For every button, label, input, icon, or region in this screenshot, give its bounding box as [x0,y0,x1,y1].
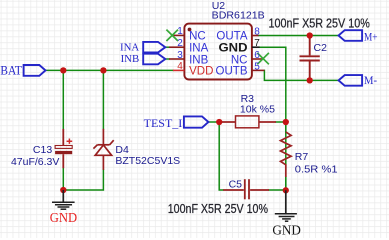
svg-text:7: 7 [254,38,260,49]
svg-text:10k %5: 10k %5 [240,103,275,115]
svg-text:NC: NC [231,54,248,66]
svg-text:BDR6121B: BDR6121B [212,9,265,21]
svg-text:0.5R %1: 0.5R %1 [295,164,338,176]
svg-text:INA: INA [189,43,209,55]
svg-text:1: 1 [177,26,183,37]
svg-text:100nF X5R 25V 10%: 100nF X5R 25V 10% [168,201,269,216]
svg-text:GND: GND [219,43,248,55]
svg-text:GND: GND [50,210,77,225]
svg-text:BZT52C5V1S: BZT52C5V1S [115,155,180,167]
svg-text:M-: M- [364,73,377,87]
svg-text:C5: C5 [229,178,243,190]
svg-text:2: 2 [177,38,183,49]
svg-text:OUTB: OUTB [216,66,248,78]
svg-text:M+: M+ [364,29,378,43]
svg-text:NC: NC [189,31,206,43]
svg-text:4: 4 [177,61,183,72]
svg-text:BAT: BAT [0,63,22,77]
svg-text:OUTA: OUTA [216,31,247,43]
svg-text:5: 5 [254,61,260,72]
svg-text:GND: GND [272,224,301,238]
svg-text:47uF/6.3V: 47uF/6.3V [11,156,59,168]
svg-text:6: 6 [254,50,260,61]
svg-text:VDD: VDD [189,66,213,78]
svg-text:INB: INB [189,54,209,66]
svg-text:INB: INB [121,53,140,65]
svg-text:100nF X5R 25V 10%: 100nF X5R 25V 10% [269,16,371,31]
svg-text:8: 8 [254,26,260,37]
svg-text:C13: C13 [33,144,52,156]
svg-text:INA: INA [120,41,139,53]
svg-text:TEST_I: TEST_I [144,116,183,130]
svg-text:C2: C2 [314,42,328,54]
svg-text:R7: R7 [295,151,309,163]
svg-text:3: 3 [177,50,183,61]
